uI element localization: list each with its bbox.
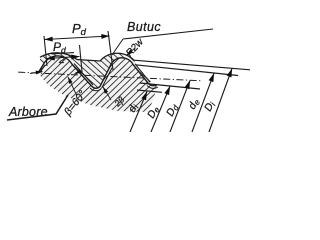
svg-text:Butuc: Butuc xyxy=(127,20,161,34)
hub hatched region (Butuc) xyxy=(40,53,151,89)
beta=60 label xyxy=(61,88,88,118)
hub root / clearance line xyxy=(40,53,134,61)
small arrow at left flank xyxy=(30,72,43,74)
dimension Pd/2 xyxy=(47,45,83,72)
2beta small label xyxy=(112,94,127,109)
contact arrow on right flank of left tooth xyxy=(75,71,82,73)
right side reference lines xyxy=(134,60,250,92)
flank contact double lines xyxy=(40,64,150,88)
clearance arc at root 2 xyxy=(147,86,158,89)
clearance arc at root 1 xyxy=(90,88,101,91)
svg-text:2: 2 xyxy=(58,54,65,66)
slanted diameter dimension lines xyxy=(130,69,232,133)
dimension Pd xyxy=(44,31,113,70)
shaft hatched region (Arbore) xyxy=(38,56,157,112)
mesh profile line xyxy=(38,56,157,88)
scan fog overlays xyxy=(40,53,151,89)
R label with arrow xyxy=(124,36,146,59)
rotated diameter labels xyxy=(126,96,218,120)
pitch line (dash-dot) xyxy=(16,72,202,81)
